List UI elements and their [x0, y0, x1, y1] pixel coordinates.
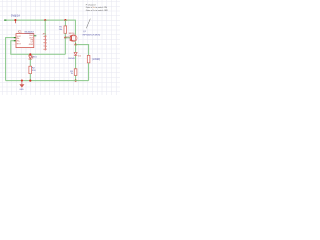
wire IC pin7 to gate net [11, 41, 66, 55]
op-amp IC1 body [16, 34, 34, 48]
svg-text:1N4148: 1N4148 [68, 58, 75, 60]
label IC1 right pin names [29, 35, 34, 46]
pin IC pin6 tick [14, 37, 16, 39]
transistor Q1 source arrow [72, 40, 74, 41]
transistor Q1 drain stub [72, 35, 76, 37]
wire drain node to load [76, 45, 89, 56]
svg-text:IC1: IC1 [18, 31, 22, 34]
wire bottom ground rail [6, 80, 89, 82]
svg-text:5V@1A: 5V@1A [11, 14, 20, 18]
svg-text:Gate = 0v to switch OFF: Gate = 0v to switch OFF [86, 9, 109, 12]
svg-text:MC34063: MC34063 [25, 31, 35, 33]
transistor Q1 pin bar [74, 36, 76, 41]
pin 5V supply stub [14, 20, 16, 23]
junction connector feed [44, 19, 46, 21]
pin IC pin7 tick [14, 40, 16, 42]
wire gate node down [64, 38, 66, 55]
background [0, 0, 120, 95]
LED LED1 arrows [31, 56, 33, 58]
annotation text block [86, 4, 109, 12]
svg-text:(LOAD): (LOAD) [92, 58, 100, 61]
LED LED1 triangle [29, 56, 32, 59]
LED LED1 cathode bar [29, 58, 33, 60]
junction R2 ground node [29, 80, 31, 82]
svg-text:GND: GND [19, 89, 24, 91]
wire drain node to D1 [75, 45, 77, 53]
wire gate stub [65, 37, 70, 39]
junction gate node [64, 37, 66, 39]
wire LED1 to R2 [29, 59, 31, 66]
svg-text:5: 5 [46, 49, 47, 51]
resistor R3 body [74, 69, 77, 76]
svg-text:P Channel: P Channel [86, 4, 96, 6]
transistor Q1 channel bar [71, 35, 73, 41]
svg-text:1: 1 [46, 36, 47, 38]
resistor R1 body [64, 26, 67, 33]
diode D1 triangle [74, 52, 77, 55]
wire R2 to ground rail [29, 74, 31, 81]
transistor Q1 source stub [72, 40, 76, 42]
resistor R2 body [29, 66, 32, 73]
wire R1 to gate node [64, 33, 66, 37]
connector JP1 pins [43, 36, 45, 49]
diode D1 cathode bar [74, 55, 77, 57]
svg-text:Gate = 5v to switch ON: Gate = 5v to switch ON [86, 6, 108, 9]
junction R3 ground node [75, 80, 77, 82]
junction gate resistor feed [64, 19, 66, 21]
svg-text:3: 3 [46, 43, 47, 45]
wire R3 to ground rail [75, 75, 77, 80]
label IC1 left pin names [17, 36, 22, 46]
wire D1 to R3 [75, 56, 77, 69]
pin IC1 right stub [34, 35, 37, 37]
wire transistor source to drain node [75, 41, 77, 44]
wire top 5V rail [4, 20, 75, 35]
svg-text:2: 2 [46, 39, 47, 41]
label JP1 pin numbers [46, 36, 47, 51]
transistor Q1 body circle [70, 35, 77, 42]
svg-text:4: 4 [46, 46, 47, 48]
svg-text:IRF9Z34N (P-MOS): IRF9Z34N (P-MOS) [83, 35, 101, 37]
connector JP1 wire from rail [44, 20, 46, 36]
connector JP1 body bar [44, 35, 46, 50]
svg-text:GND: GND [29, 44, 34, 46]
junction drain node [75, 44, 77, 46]
svg-text:BS250: BS250 [69, 33, 74, 35]
grid pattern [0, 0, 120, 95]
svg-text:LED1: LED1 [32, 57, 37, 59]
resistor RLOAD body [87, 55, 90, 63]
pin rail left end tick [4, 19, 6, 21]
wire load to ground rail [88, 63, 90, 81]
annotation pointer line [86, 19, 90, 29]
wire IC pin6 to left outer [6, 38, 16, 81]
junction 5V label node [14, 19, 16, 21]
junction GND node [21, 80, 23, 82]
ground GND symbol [21, 81, 23, 85]
wire rail to R1 [64, 20, 66, 26]
transistor Q1 gate bar [69, 35, 71, 41]
junction LED node [29, 53, 31, 55]
